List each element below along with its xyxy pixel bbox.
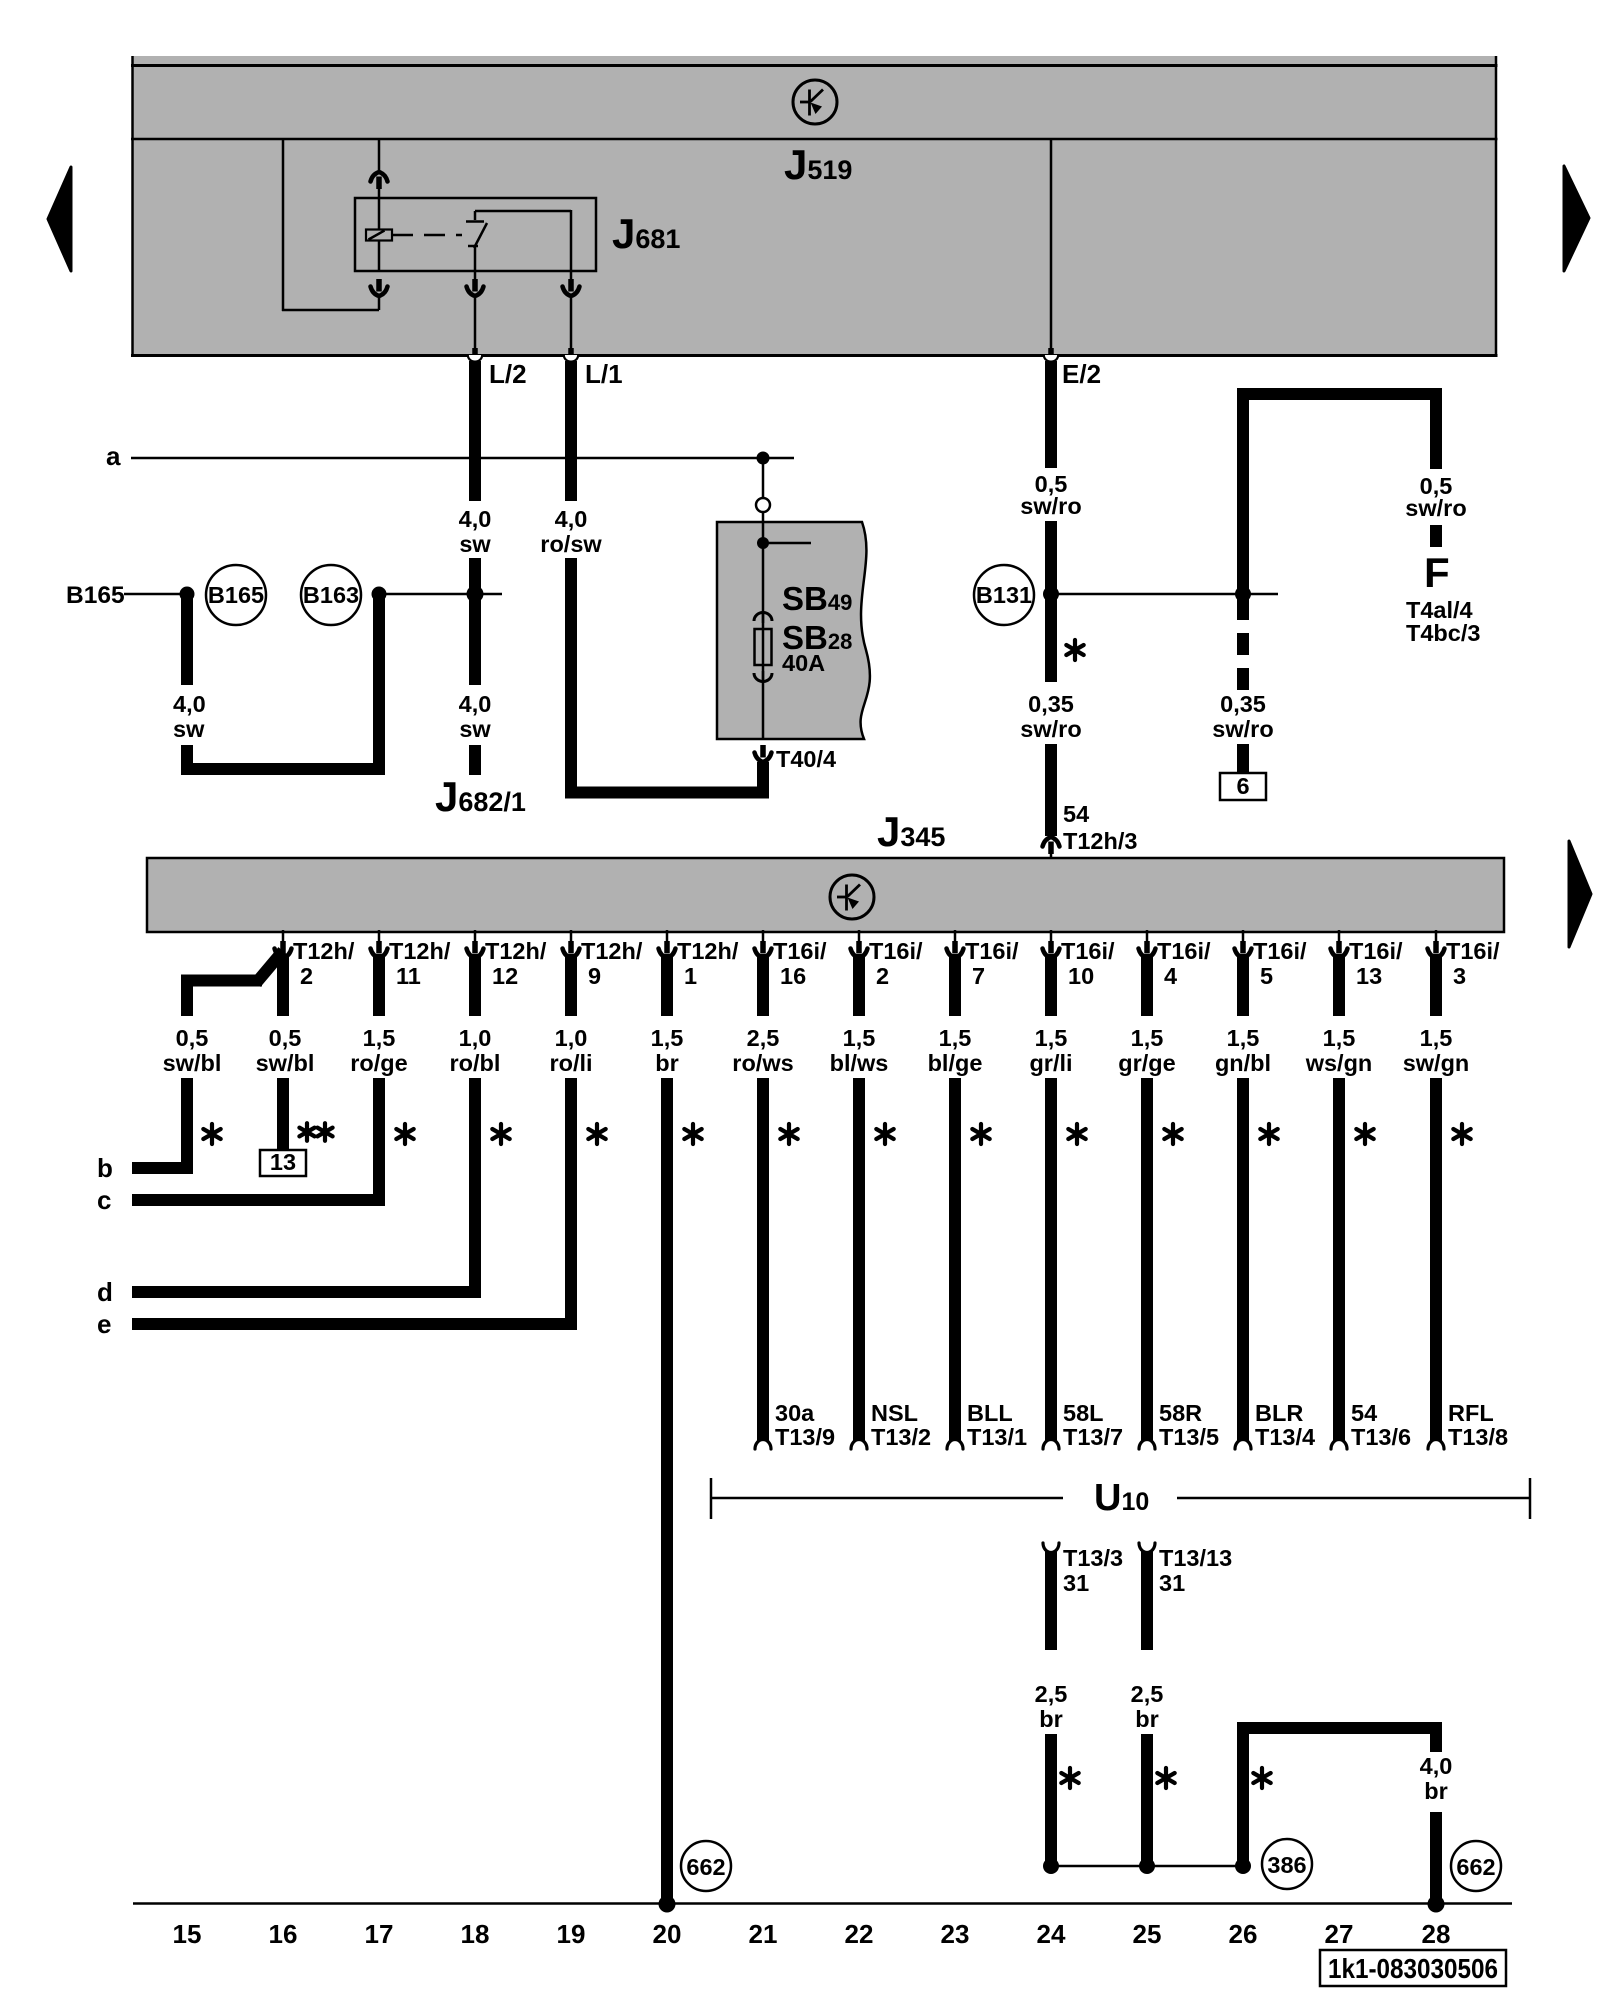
star note (E/2 wire) xyxy=(1066,640,1083,660)
svg-text:T40/4: T40/4 xyxy=(776,746,836,772)
pin T16i/10 of J345 xyxy=(1043,930,1116,989)
svg-text:sw/bl: sw/bl xyxy=(256,1050,315,1076)
ground junction dot col 20 xyxy=(659,1896,676,1913)
label 4,0 ro/sw (L/1) xyxy=(540,506,602,557)
svg-text:T16i/: T16i/ xyxy=(1349,938,1403,964)
control unit J519 (onboard supply control unit) gray box xyxy=(131,56,1498,356)
svg-text:T4bc/3: T4bc/3 xyxy=(1406,620,1480,646)
relay J681 switch contact xyxy=(466,211,487,271)
label 1,5 ro/ge xyxy=(350,1025,407,1076)
svg-text:22: 22 xyxy=(845,1919,874,1949)
svg-text:gr/ge: gr/ge xyxy=(1118,1050,1175,1076)
connector fork 30a T13/9 xyxy=(755,1440,771,1450)
svg-text:BLR: BLR xyxy=(1255,1400,1303,1426)
wire 2,5 ro/ws pin upper xyxy=(757,954,769,1016)
label 4,0 sw (L/2) xyxy=(459,506,492,557)
svg-text:BLL: BLL xyxy=(967,1400,1013,1426)
connector fork BLR T13/4 xyxy=(1235,1440,1251,1450)
svg-text:20: 20 xyxy=(653,1919,682,1949)
wire B165 lead-in xyxy=(124,593,187,596)
wire 2,5 br T13/3 lower xyxy=(1045,1734,1057,1866)
diagram number box 1k1-083030506 xyxy=(1320,1950,1506,1986)
star note (ground riser) xyxy=(1253,1768,1270,1788)
svg-text:T13/8: T13/8 xyxy=(1448,1424,1508,1450)
svg-text:B131: B131 xyxy=(976,582,1032,608)
connector circle above fuse box xyxy=(756,498,770,512)
wire 1,5 gn/bl run to BLR xyxy=(1237,1078,1249,1444)
svg-text:21: 21 xyxy=(749,1919,778,1949)
label T4bc/3 xyxy=(1406,620,1480,646)
node b label xyxy=(97,1153,113,1183)
svg-text:NSL: NSL xyxy=(871,1400,918,1426)
wire B163 right leg xyxy=(373,594,385,769)
svg-text:F: F xyxy=(1424,549,1450,596)
node B165 label xyxy=(66,582,125,609)
connector arrow down (relay pin, L/1) xyxy=(563,271,580,296)
relay J681 outline box xyxy=(355,198,596,271)
page arrow left xyxy=(48,167,71,271)
connector fork 58R T13/5 xyxy=(1139,1440,1155,1450)
label T13/13 / 31 xyxy=(1159,1545,1232,1596)
label BLR / T13/4 xyxy=(1255,1400,1315,1450)
svg-text:10: 10 xyxy=(1068,963,1094,989)
label L/2 xyxy=(489,359,527,389)
svg-text:T13/4: T13/4 xyxy=(1255,1424,1315,1450)
star note (col 23) xyxy=(972,1124,989,1144)
plug symbol 6 xyxy=(1220,773,1266,800)
connector fork T13/3 xyxy=(1043,1543,1059,1553)
svg-text:4,0: 4,0 xyxy=(459,506,492,532)
svg-text:1,5: 1,5 xyxy=(843,1025,876,1051)
label 2,5 br (T13/3) xyxy=(1035,1681,1068,1732)
svg-text:B165: B165 xyxy=(66,582,125,609)
svg-text:11: 11 xyxy=(396,963,421,989)
svg-text:26: 26 xyxy=(1229,1919,1258,1949)
wire 1,5 sw/gn run to RFL xyxy=(1430,1078,1442,1444)
svg-text:br: br xyxy=(655,1050,679,1076)
svg-text:28: 28 xyxy=(1422,1919,1451,1949)
svg-text:sw: sw xyxy=(459,531,491,557)
wire stub to F xyxy=(1430,525,1442,547)
svg-text:15: 15 xyxy=(173,1919,202,1949)
wire 1,5 sw/gn pin upper xyxy=(1430,954,1442,1016)
plug symbol 13 xyxy=(260,1149,306,1176)
relay J681 coil xyxy=(366,230,392,241)
wire into relay coil xyxy=(378,188,381,230)
svg-text:0,5: 0,5 xyxy=(176,1025,209,1051)
wire node d horizontal xyxy=(132,1286,481,1298)
wire riser to node c xyxy=(373,1078,385,1206)
svg-text:sw/bl: sw/bl xyxy=(163,1050,222,1076)
wire J519 internal E/2 feed xyxy=(1050,139,1053,350)
label 1,5 gn/bl xyxy=(1215,1025,1271,1076)
svg-text:1,0: 1,0 xyxy=(555,1025,588,1051)
svg-text:T13/9: T13/9 xyxy=(775,1424,835,1450)
star note (col 24) xyxy=(1068,1124,1085,1144)
label F connector xyxy=(1424,549,1450,596)
svg-text:br: br xyxy=(1424,1778,1448,1804)
label 1,5 gr/li xyxy=(1029,1025,1072,1076)
wire L/1 elbow to T40/4 xyxy=(565,762,769,793)
svg-text:1,5: 1,5 xyxy=(1420,1025,1453,1051)
svg-text:4,0: 4,0 xyxy=(1420,1753,1453,1779)
label 0,35 sw/ro (E/2) xyxy=(1020,691,1081,742)
svg-text:bl/ge: bl/ge xyxy=(928,1050,983,1076)
ruler column numbers 15-28 xyxy=(173,1919,1451,1949)
wire 2,5 br T13/13 lower xyxy=(1141,1734,1153,1866)
pin T16i/2 of J345 xyxy=(851,930,924,989)
label T40/4 xyxy=(776,746,836,772)
star note (T13/13 wire) xyxy=(1157,1768,1174,1788)
label 1,5 bl/ws xyxy=(830,1025,889,1076)
svg-text:ro/bl: ro/bl xyxy=(450,1050,501,1076)
page arrow right top xyxy=(1564,166,1589,271)
wire bridge to F (0,5 sw/ro) xyxy=(1237,394,1442,596)
svg-text:T13/5: T13/5 xyxy=(1159,1424,1219,1450)
star note (T13/3 wire) xyxy=(1061,1768,1078,1788)
page arrow right middle xyxy=(1569,841,1591,947)
svg-text:4: 4 xyxy=(1164,963,1177,989)
svg-text:58R: 58R xyxy=(1159,1400,1202,1426)
svg-text:2: 2 xyxy=(876,963,889,989)
svg-text:1,5: 1,5 xyxy=(1131,1025,1164,1051)
svg-text:T13/1: T13/1 xyxy=(967,1424,1027,1450)
svg-text:5: 5 xyxy=(1260,963,1273,989)
svg-text:a: a xyxy=(106,441,121,471)
svg-text:16: 16 xyxy=(780,963,806,989)
wire ground link line xyxy=(1051,1865,1243,1868)
terminal socket E/2 xyxy=(1044,348,1058,362)
svg-text:54: 54 xyxy=(1351,1400,1377,1426)
junction ground link right xyxy=(1235,1858,1251,1874)
svg-text:1,0: 1,0 xyxy=(459,1025,492,1051)
star note (node c wire) xyxy=(396,1124,413,1144)
wire node b horizontal xyxy=(132,1162,193,1174)
label 1,5 ws/gn xyxy=(1305,1025,1373,1076)
label 1,5 gr/ge xyxy=(1118,1025,1175,1076)
label 2,5 ro/ws xyxy=(732,1025,793,1076)
wire to plug 13 xyxy=(277,1078,289,1150)
label J519 xyxy=(784,141,852,188)
wire 4,0 br upper xyxy=(1430,1728,1442,1752)
label 1,5 bl/ge xyxy=(928,1025,983,1076)
svg-text:T13/6: T13/6 xyxy=(1351,1424,1411,1450)
junction T13/3 ground xyxy=(1043,1858,1059,1874)
node e label xyxy=(97,1309,111,1339)
svg-text:sw: sw xyxy=(173,716,205,742)
star note (col 22) xyxy=(876,1124,893,1144)
svg-text:sw/ro: sw/ro xyxy=(1405,495,1466,521)
svg-text:18: 18 xyxy=(461,1919,490,1949)
wire relay to terminal L/1 xyxy=(570,296,573,350)
svg-text:0,5: 0,5 xyxy=(269,1025,302,1051)
label J681 xyxy=(612,210,680,257)
wire ground riser col 26 xyxy=(1237,1734,1249,1866)
pin T16i/3 of J345 xyxy=(1428,930,1501,989)
label 4,0 br xyxy=(1420,1753,1453,1804)
svg-text:br: br xyxy=(1135,1706,1159,1732)
svg-text:662: 662 xyxy=(1456,1854,1495,1880)
label NSL / T13/2 xyxy=(871,1400,931,1450)
svg-text:T12h/: T12h/ xyxy=(389,938,451,964)
svg-text:T12h/: T12h/ xyxy=(677,938,739,964)
svg-text:T16i/: T16i/ xyxy=(773,938,827,964)
wire 1,5 bl/ge run to BLL xyxy=(949,1078,961,1444)
svg-text:c: c xyxy=(97,1185,111,1215)
junction B131 on E/2 wire xyxy=(1043,586,1059,602)
label 1,5 sw/gn xyxy=(1403,1025,1470,1076)
label T4al/4 xyxy=(1406,597,1473,623)
label 0,5 sw/ro (E/2) xyxy=(1020,471,1081,519)
wire relay coil bottom xyxy=(378,240,381,271)
svg-text:3: 3 xyxy=(1453,963,1466,989)
svg-text:1,5: 1,5 xyxy=(651,1025,684,1051)
connector arrow down T40/4 xyxy=(755,745,772,762)
pin T12h/1 of J345 xyxy=(659,930,739,989)
svg-text:T16i/: T16i/ xyxy=(1446,938,1500,964)
svg-text:T16i/: T16i/ xyxy=(1253,938,1307,964)
svg-text:6: 6 xyxy=(1236,773,1249,799)
svg-text:7: 7 xyxy=(972,963,985,989)
connector arrow up (relay J681 coil top) xyxy=(371,172,388,189)
label J345 xyxy=(877,808,945,855)
wire 1,5 gr/li pin upper xyxy=(1045,954,1057,1016)
svg-text:T13/3: T13/3 xyxy=(1063,1545,1123,1571)
double star note (plug 13 wire) xyxy=(299,1123,332,1141)
connector fork BLL T13/1 xyxy=(947,1440,963,1450)
node d label xyxy=(97,1277,113,1307)
svg-text:12: 12 xyxy=(492,963,518,989)
wire L/2 to connector J682/1 xyxy=(469,745,481,775)
svg-text:E/2: E/2 xyxy=(1062,359,1101,389)
label 0,5 sw/bl (pin T12h/2) xyxy=(256,1025,315,1076)
svg-text:4,0: 4,0 xyxy=(173,691,206,717)
pin T12h/2 of J345 xyxy=(275,930,355,989)
bracket U10 (trailer socket) xyxy=(711,1477,1530,1519)
svg-text:54: 54 xyxy=(1063,801,1089,827)
svg-text:24: 24 xyxy=(1037,1919,1066,1949)
relay J681 coil-to-contact dashed link xyxy=(392,234,462,237)
wire L/1 4,0 ro/sw upper xyxy=(565,361,577,501)
pin T12h/9 of J345 xyxy=(563,930,643,989)
svg-text:1: 1 xyxy=(684,963,697,989)
svg-text:30a: 30a xyxy=(775,1400,815,1426)
svg-text:1,5: 1,5 xyxy=(1323,1025,1356,1051)
label 2,5 br (T13/13) xyxy=(1131,1681,1164,1732)
pin T12h/11 of J345 xyxy=(371,930,451,989)
star note (node b wire) xyxy=(203,1124,220,1144)
terminal socket L/2 xyxy=(468,348,482,362)
terminal socket L/1 xyxy=(564,348,578,362)
fuse panel gray box (torn edge) xyxy=(717,522,870,739)
svg-text:T13/2: T13/2 xyxy=(871,1424,931,1450)
label 4,0 sw (B165) xyxy=(173,691,206,742)
svg-text:1,5: 1,5 xyxy=(939,1025,972,1051)
svg-text:0,35: 0,35 xyxy=(1028,691,1074,717)
svg-text:T16i/: T16i/ xyxy=(1061,938,1115,964)
svg-text:ws/gn: ws/gn xyxy=(1305,1050,1373,1076)
connector fork T13/13 xyxy=(1139,1543,1155,1553)
label 1,0 ro/bl xyxy=(450,1025,501,1076)
wire E/2 0,5 sw/ro middle xyxy=(1045,521,1057,682)
junction B163/L2 wire xyxy=(467,586,484,603)
connector arrow up into J345 T12h/3 xyxy=(1043,837,1060,858)
ground symbol 662 (right) xyxy=(1451,1841,1501,1891)
svg-text:2,5: 2,5 xyxy=(747,1025,780,1051)
svg-text:T16i/: T16i/ xyxy=(869,938,923,964)
label 1,0 ro/li xyxy=(549,1025,592,1076)
wire riser to node e xyxy=(565,1078,577,1330)
svg-text:ro/ws: ro/ws xyxy=(732,1050,793,1076)
node a wire xyxy=(131,457,794,460)
wire E/2 0,5 sw/ro upper xyxy=(1045,361,1057,468)
wire E/2 0,35 sw/ro lower xyxy=(1045,744,1057,836)
star note (col 28) xyxy=(1453,1124,1470,1144)
connector arrow down (relay pin, coil) xyxy=(371,279,388,296)
svg-text:gr/li: gr/li xyxy=(1029,1050,1072,1076)
wire 0,35 sw/ro dashed (to plug 6) xyxy=(1237,596,1249,690)
wire 0,5 sw/bl pin T12h/2 to plug 13 xyxy=(277,954,289,1016)
svg-text:13: 13 xyxy=(1356,963,1382,989)
svg-text:16: 16 xyxy=(269,1919,298,1949)
svg-text:2,5: 2,5 xyxy=(1131,1681,1164,1707)
svg-text:sw/gn: sw/gn xyxy=(1403,1050,1470,1076)
junction a / fuse feed xyxy=(757,452,770,465)
wire 2,5 br T13/13 upper xyxy=(1141,1548,1153,1650)
svg-text:T13/7: T13/7 xyxy=(1063,1424,1123,1450)
svg-text:40A: 40A xyxy=(782,650,825,676)
label 30a / T13/9 xyxy=(775,1400,835,1450)
pin T16i/16 of J345 xyxy=(755,930,828,989)
connection symbol B131 xyxy=(974,565,1034,625)
wire 1,5 bl/ws run to NSL xyxy=(853,1078,865,1444)
label 4,0 sw (L/2 lower) xyxy=(459,691,492,742)
label T13/3 / 31 xyxy=(1063,1545,1123,1596)
wire 2,5 br T13/3 upper xyxy=(1045,1548,1057,1650)
wire 1,5 bl/ws pin upper xyxy=(853,954,865,1016)
junction B165 xyxy=(180,587,195,602)
svg-text:B163: B163 xyxy=(303,582,359,608)
ruler line xyxy=(133,1902,1512,1905)
wire into fuse panel xyxy=(762,512,765,739)
label SB28 xyxy=(782,619,852,656)
wire relay top link to L/1 leg xyxy=(475,210,571,271)
label RFL / T13/8 xyxy=(1448,1400,1508,1450)
wire 1,5 br pin T12h/1 upper xyxy=(661,954,673,1016)
label 54 / T13/6 xyxy=(1351,1400,1411,1450)
svg-text:13: 13 xyxy=(270,1149,296,1175)
wire J519 internal coil feed xyxy=(378,139,381,172)
svg-text:1,5: 1,5 xyxy=(1227,1025,1260,1051)
svg-text:1,5: 1,5 xyxy=(1035,1025,1068,1051)
fuse SB49/SB28 40A symbol xyxy=(754,612,772,682)
junction B131 line / bridge xyxy=(1235,586,1251,602)
wire a-line to fuse xyxy=(762,458,765,498)
svg-text:4,0: 4,0 xyxy=(459,691,492,717)
svg-text:e: e xyxy=(97,1309,111,1339)
label 58R / T13/5 xyxy=(1159,1400,1219,1450)
node a label xyxy=(106,441,121,471)
wire J519 internal left loop xyxy=(282,139,379,311)
wire ground bridge top xyxy=(1237,1722,1442,1734)
svg-text:27: 27 xyxy=(1325,1919,1354,1949)
ground symbol 662 (left) xyxy=(681,1841,731,1891)
wire B163 to L/2 xyxy=(379,593,502,596)
junction T13/13 ground xyxy=(1139,1858,1155,1874)
electronics symbol in J519 xyxy=(793,80,837,124)
label J682/1 xyxy=(435,773,526,820)
svg-text:4,0: 4,0 xyxy=(555,506,588,532)
pin T16i/13 of J345 xyxy=(1331,930,1404,989)
pin T16i/5 of J345 xyxy=(1235,930,1308,989)
connector arrow down (relay pin, L/2) xyxy=(467,271,484,296)
ground junction dot col 28 xyxy=(1428,1896,1445,1913)
wire B165 4,0 sw left leg xyxy=(181,594,193,685)
wire 1,5 ro/ge pin T12h/11 xyxy=(373,954,385,1016)
svg-text:19: 19 xyxy=(557,1919,586,1949)
star note (1,5 br wire) xyxy=(684,1124,701,1144)
wire 1,5 gn/bl pin upper xyxy=(1237,954,1249,1016)
svg-text:2,5: 2,5 xyxy=(1035,1681,1068,1707)
svg-text:ro/ge: ro/ge xyxy=(350,1050,407,1076)
label L/1 xyxy=(585,359,623,389)
wire B165 bottom link xyxy=(181,763,385,775)
pin T16i/4 of J345 xyxy=(1139,930,1212,989)
svg-text:T13/13: T13/13 xyxy=(1159,1545,1232,1571)
label 0,35 sw/ro (plug 6) xyxy=(1212,691,1273,742)
svg-text:31: 31 xyxy=(1063,1570,1089,1596)
svg-text:58L: 58L xyxy=(1063,1400,1104,1426)
svg-text:gn/bl: gn/bl xyxy=(1215,1050,1271,1076)
svg-text:L/2: L/2 xyxy=(489,359,527,389)
label E/2 xyxy=(1062,359,1101,389)
star note (col 25) xyxy=(1164,1124,1181,1144)
electronics symbol in J345 xyxy=(830,875,874,919)
ground symbol 386 xyxy=(1262,1839,1312,1889)
connection symbol B165 xyxy=(206,565,266,625)
star note (col 26) xyxy=(1260,1124,1277,1144)
label 0,5 sw/ro (F) xyxy=(1405,473,1466,521)
label 40A xyxy=(782,650,825,676)
label 0,5 sw/bl (left) xyxy=(163,1025,222,1076)
wire L/1 4,0 ro/sw lower xyxy=(565,558,577,799)
svg-text:ro/li: ro/li xyxy=(549,1050,592,1076)
wire riser to node b xyxy=(181,1078,193,1174)
svg-text:T12h/3: T12h/3 xyxy=(1063,828,1137,854)
wire 4,0 br lower xyxy=(1430,1812,1442,1900)
wire 1,5 ws/gn pin upper xyxy=(1333,954,1345,1016)
svg-text:bl/ws: bl/ws xyxy=(830,1050,889,1076)
svg-text:ro/sw: ro/sw xyxy=(540,531,602,557)
svg-text:RFL: RFL xyxy=(1448,1400,1494,1426)
svg-text:T16i/: T16i/ xyxy=(1157,938,1211,964)
svg-text:T12h/: T12h/ xyxy=(485,938,547,964)
wire 2,5 ro/ws run to 30a xyxy=(757,1078,769,1444)
svg-text:L/1: L/1 xyxy=(585,359,623,389)
star note (col 27) xyxy=(1356,1124,1373,1144)
svg-text:23: 23 xyxy=(941,1919,970,1949)
pin T16i/7 of J345 xyxy=(947,930,1020,989)
wire riser to node d xyxy=(469,1078,481,1298)
svg-text:T12h/: T12h/ xyxy=(293,938,355,964)
wire 1,0 ro/li pin T12h/9 xyxy=(565,954,577,1016)
svg-text:d: d xyxy=(97,1277,113,1307)
label 54 / T12h/3 xyxy=(1063,801,1137,854)
wire B165 4,0 sw lower left leg xyxy=(181,745,193,769)
connection symbol B163 xyxy=(301,565,361,625)
wire 0,5 sw/bl pin T12h/2 diagonal to left riser xyxy=(181,951,283,1016)
star note (col 21) xyxy=(780,1124,797,1144)
